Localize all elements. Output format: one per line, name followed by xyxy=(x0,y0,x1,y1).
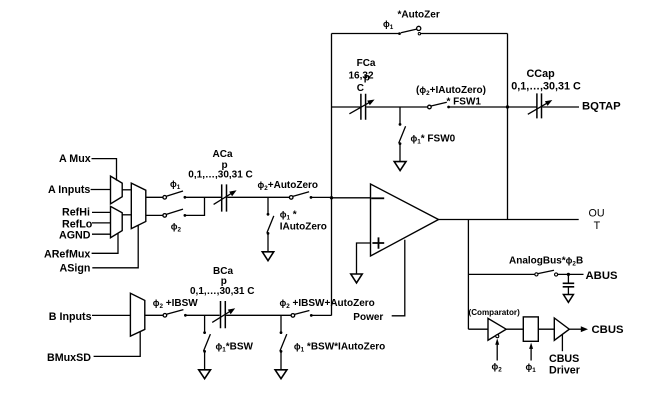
wire FSW1 to right vertical xyxy=(449,106,537,108)
mux M2 (Ref select) xyxy=(111,206,123,237)
wire op-amp output xyxy=(439,219,579,221)
latch U3 xyxy=(523,317,538,341)
wire op-amp power pin xyxy=(392,240,405,316)
wire ACa to phi2+AutoZero switch xyxy=(227,196,289,198)
svg-text:AnalogBus*ϕ2B: AnalogBus*ϕ2B xyxy=(509,256,583,268)
svg-text:Driver: Driver xyxy=(549,364,580,376)
wire right vertical (output feedback) xyxy=(507,34,509,220)
wire A Mux select xyxy=(92,159,117,181)
svg-text:OU: OU xyxy=(589,208,605,220)
ground below ABUS capacitor xyxy=(563,295,573,303)
svg-text:(Comparator): (Comparator) xyxy=(469,308,521,317)
svg-text:B Inputs: B Inputs xyxy=(49,311,92,323)
wire phi1 switch to ACa xyxy=(185,196,221,198)
wire RefLo xyxy=(92,222,111,224)
wire switch to BCa xyxy=(185,314,219,316)
wire driver output with arrow to CBUS xyxy=(569,326,588,332)
wire M3 output top xyxy=(146,196,163,198)
ground below FSW0 xyxy=(394,162,406,171)
switch phi1*BSW*!AutoZero branch xyxy=(280,315,287,369)
svg-text:RefHi: RefHi xyxy=(62,206,90,218)
junction on right vertical at FCa row xyxy=(506,105,509,108)
switch phi2+IBSW xyxy=(163,310,187,318)
wire output down vertical xyxy=(467,220,469,330)
mux M3 (A sign select) xyxy=(131,183,146,229)
wire CCap to BQTAP xyxy=(542,106,579,108)
svg-text:* FSW1: * FSW1 xyxy=(447,96,482,107)
switch phi2 (A path) xyxy=(163,209,186,217)
mux M1 (A Inputs) xyxy=(111,176,123,204)
svg-text:FCa: FCa xyxy=(357,58,376,69)
ground below BSW switch xyxy=(199,370,211,379)
wire BCa to right switch xyxy=(226,314,291,316)
svg-text:ARefMux: ARefMux xyxy=(44,249,90,261)
wire FCa row left segment xyxy=(332,106,361,108)
capacitor BCa (variable) xyxy=(212,301,235,328)
wire non-inverting input to ground xyxy=(357,243,371,274)
wire left vertical (inverting node bus) xyxy=(331,34,333,316)
switch FSW0 branch (phi1*FSW0) xyxy=(399,107,406,161)
switch phi2+IBSW+AutoZero xyxy=(291,311,313,318)
svg-text:CBUS: CBUS xyxy=(549,353,579,365)
svg-text:IAutoZero: IAutoZero xyxy=(280,221,327,232)
svg-text:Power: Power xyxy=(353,312,383,323)
wire B Inputs xyxy=(92,314,130,316)
mux M4 (B Inputs) xyxy=(130,293,144,336)
svg-text:BMuxSD: BMuxSD xyxy=(47,352,91,364)
comparator U2 xyxy=(488,318,506,340)
capacitor FCa (variable) xyxy=(349,94,374,120)
switch phi1*AutoZer xyxy=(398,26,421,35)
op-amp minus sign xyxy=(371,197,384,199)
capacitor ACa (variable) xyxy=(214,184,237,211)
svg-text:A Inputs: A Inputs xyxy=(48,184,90,196)
junction inverting node xyxy=(330,196,333,199)
svg-text:T: T xyxy=(594,220,601,232)
clock phi1 arrow into latch xyxy=(529,343,533,361)
wire ARefMux select xyxy=(92,233,118,253)
switch AnalogBus*phi2B xyxy=(468,270,583,276)
svg-text:0,1,…,30,31 C: 0,1,…,30,31 C xyxy=(511,80,581,92)
wire switch to inverting bus xyxy=(311,314,331,316)
wire M1 to M3 xyxy=(122,189,131,191)
wire M3 output bottom xyxy=(146,214,163,216)
wire ASign select xyxy=(92,225,138,268)
svg-text:ϕ2 +IBSW+AutoZero: ϕ2 +IBSW+AutoZero xyxy=(280,298,375,310)
switch phi1*!AutoZero branch xyxy=(267,197,274,251)
svg-text:ACa: ACa xyxy=(213,149,233,160)
wire RefHi xyxy=(92,211,111,213)
wire A Inputs xyxy=(91,189,111,191)
wire AGND xyxy=(92,233,111,235)
switch phi1 (A path) xyxy=(163,191,186,199)
wire M2 to M3 xyxy=(122,214,131,216)
svg-text:ϕ1 *BSW*IAutoZero: ϕ1 *BSW*IAutoZero xyxy=(294,342,385,354)
wire switch to inverting node xyxy=(311,196,332,198)
svg-text:CBUS: CBUS xyxy=(592,324,624,336)
svg-text:*AutoZer: *AutoZer xyxy=(398,10,440,21)
wire M4 output xyxy=(145,314,163,316)
wire phi2 switch joining up xyxy=(185,197,205,215)
ground at non-inverting input xyxy=(351,274,362,283)
svg-text:ASign: ASign xyxy=(60,263,91,275)
svg-text:0,1,…,30,31 C: 0,1,…,30,31 C xyxy=(188,169,252,180)
switch phi2+AutoZero xyxy=(289,192,312,199)
switch phi1*BSW branch xyxy=(203,315,210,369)
wire to comparator xyxy=(468,328,488,330)
capacitor at ABUS xyxy=(563,274,575,294)
svg-text:A Mux: A Mux xyxy=(59,153,91,165)
svg-text:AGND: AGND xyxy=(59,230,91,242)
svg-text:CCap: CCap xyxy=(527,68,556,80)
capacitor CCap (variable) xyxy=(528,93,553,118)
ground below !AutoZero switch xyxy=(262,252,273,261)
wire inverting input xyxy=(332,197,371,199)
op-amp U1 xyxy=(371,184,439,256)
wire driver label pointer xyxy=(561,334,563,351)
svg-text:16,32: 16,32 xyxy=(349,71,374,82)
wire BMuxSD select xyxy=(94,332,141,357)
op-amp plus sign xyxy=(372,237,384,248)
svg-text:0,1,…,30,31 C: 0,1,…,30,31 C xyxy=(190,286,254,297)
junction ABUS node xyxy=(567,273,570,276)
wire top loop horizontal left segment xyxy=(332,33,400,35)
comparator clock bubble xyxy=(496,335,499,338)
ground below BSW!AutoZero switch xyxy=(275,370,287,379)
wire comparator to latch xyxy=(506,328,523,330)
wire latch to driver xyxy=(538,328,554,330)
CBUS driver U4 xyxy=(554,318,569,340)
switch FSW1 (phi2+!AutoZero) xyxy=(428,102,450,109)
svg-text:C: C xyxy=(357,83,364,94)
wire FCa to FSW1 xyxy=(366,106,428,108)
wire top loop horizontal right segment xyxy=(421,33,508,35)
svg-text:BQTAP: BQTAP xyxy=(582,100,621,112)
svg-text:ABUS: ABUS xyxy=(586,270,618,282)
clock phi2 arrow into comparator xyxy=(495,338,499,360)
